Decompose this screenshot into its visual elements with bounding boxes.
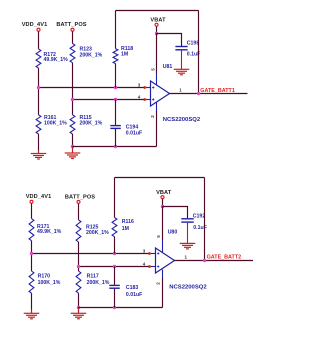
- wire R115 to rail: [72, 134, 74, 147]
- resistor R125: [76, 220, 81, 242]
- svg-text:GATE_BATT2: GATE_BATT2: [207, 254, 242, 260]
- svg-text:NCS2200SQ2: NCS2200SQ2: [169, 285, 207, 291]
- resistor R117: [76, 271, 81, 293]
- svg-text:GATE_BATT1: GATE_BATT1: [200, 88, 235, 94]
- junction col2 line4: [77, 265, 80, 268]
- ground rail wire (2): [79, 307, 163, 309]
- junction C183 line4: [113, 265, 116, 268]
- wire R161 to ground: [38, 134, 40, 150]
- svg-text:0.01uF: 0.01uF: [126, 131, 142, 137]
- resistor R118: [113, 49, 118, 64]
- ground under R161: [31, 150, 47, 159]
- junction R118 line1: [114, 86, 117, 89]
- junction VBAT (2): [161, 205, 164, 208]
- wire BATT_POS down to R123: [72, 31, 74, 43]
- wire box right: [198, 11, 200, 94]
- resistor R172: [36, 49, 41, 68]
- junction R116 line3: [113, 252, 116, 255]
- svg-text:VDD_4V1: VDD_4V1: [22, 22, 48, 28]
- wire line3 node to pin3: [32, 253, 151, 255]
- wire VBAT to C192: [163, 207, 188, 219]
- svg-text:C198: C198: [187, 40, 200, 46]
- ground under C198: [174, 69, 190, 75]
- wire C194 column upper: [115, 100, 117, 126]
- junction output (2): [203, 259, 206, 262]
- svg-text:1M: 1M: [122, 226, 129, 232]
- wire R171 to R170: [31, 241, 33, 271]
- wire box top: [116, 10, 199, 12]
- wire box right (2): [204, 178, 206, 261]
- wire R116 to line3: [114, 237, 116, 254]
- terminal circle VDD_4V1 (2): [30, 200, 33, 203]
- pin4 arrow (2): [149, 265, 154, 268]
- svg-text:VBAT: VBAT: [150, 17, 166, 23]
- pin2 blue stub (2): [162, 270, 164, 279]
- junction C183 rail: [113, 306, 116, 309]
- pin2 wire to rail: [156, 111, 158, 147]
- capacitor C183: [109, 285, 120, 288]
- svg-text:49.9K_1%: 49.9K_1%: [37, 229, 62, 235]
- svg-text:R170: R170: [38, 274, 51, 280]
- junction col1 line3: [30, 252, 33, 255]
- pin2 blue stub: [156, 102, 158, 111]
- svg-text:VDD_4V1: VDD_4V1: [26, 194, 52, 200]
- output wire pin1: [170, 93, 248, 95]
- wire pin5 (2): [162, 207, 164, 241]
- ground under R170: [24, 310, 40, 319]
- pin4 blue stub (2): [151, 266, 155, 268]
- wire R125 to R117: [78, 242, 80, 271]
- svg-text:U81: U81: [163, 64, 173, 70]
- wire box top (2): [115, 177, 205, 179]
- terminal circle VBAT (2): [161, 196, 164, 199]
- capacitor C192: [181, 219, 193, 222]
- resistor R171: [29, 219, 34, 241]
- svg-text:VBAT: VBAT: [156, 190, 172, 196]
- ground under R115: [65, 147, 81, 159]
- wire R123 to R115: [72, 63, 74, 115]
- junction R115 rail: [71, 145, 74, 148]
- wire VBAT down (2): [162, 199, 164, 207]
- svg-text:R117: R117: [87, 274, 99, 280]
- svg-text:200K_1%: 200K_1%: [87, 280, 110, 286]
- plus mark pin4 (2): [157, 265, 159, 267]
- svg-text:100K_1%: 100K_1%: [44, 121, 67, 127]
- wire box left upper (2): [114, 178, 116, 218]
- terminal circle VDD_4V1: [37, 28, 40, 31]
- pin3 arrow (2): [149, 252, 154, 255]
- terminal circle BATT_POS: [71, 28, 74, 31]
- pin3 arrow: [144, 86, 149, 89]
- svg-text:200K_1%: 200K_1%: [86, 230, 109, 236]
- resistor R170: [29, 271, 34, 293]
- svg-text:R116: R116: [122, 219, 134, 225]
- svg-text:200K_1%: 200K_1%: [80, 53, 103, 59]
- plus mark pin3: [152, 86, 154, 88]
- pin3 blue stub (2): [151, 253, 155, 255]
- wire C183 column upper: [114, 267, 116, 285]
- op-amp U81 triangle: [151, 81, 170, 106]
- wire VBAT down: [156, 27, 158, 34]
- svg-text:C192: C192: [193, 214, 206, 220]
- wire VDD_4V1 down to R172: [38, 31, 40, 49]
- wire VBAT to C198: [157, 34, 182, 47]
- wire line1 node to pin3: [39, 87, 146, 89]
- ground under C192: [180, 243, 196, 249]
- junction R117 rail: [77, 306, 80, 309]
- junction output: [197, 92, 200, 95]
- resistor R123: [70, 44, 75, 63]
- svg-text:BATT_POS: BATT_POS: [56, 22, 86, 28]
- wire line2 node to pin4: [73, 99, 146, 101]
- svg-text:C194: C194: [126, 124, 139, 130]
- plus mark pin4: [152, 98, 154, 100]
- resistor R115: [70, 115, 75, 134]
- pin4 arrow: [144, 98, 149, 101]
- plus mark pin3 (2): [157, 252, 159, 254]
- wire VDD_4V1 down to R171: [31, 204, 33, 219]
- pin2 wire to rail (2): [162, 278, 164, 308]
- capacitor C194: [110, 126, 121, 129]
- svg-text:0.01uF: 0.01uF: [126, 292, 142, 298]
- wire R117 to rail: [78, 293, 80, 307]
- junction C194 rail: [114, 145, 117, 148]
- svg-text:49.9K_1%: 49.9K_1%: [44, 57, 69, 63]
- terminal circle VBAT: [155, 23, 158, 26]
- wire C192 to ground: [187, 223, 189, 244]
- svg-text:U80: U80: [168, 229, 178, 235]
- resistor R116: [112, 218, 117, 237]
- junction VBAT: [155, 32, 158, 35]
- junction col2 line2: [71, 98, 74, 101]
- svg-text:100K_1%: 100K_1%: [38, 280, 61, 286]
- wire C183 column lower: [114, 289, 116, 308]
- ground rail wire: [73, 146, 157, 148]
- svg-text:C183: C183: [126, 285, 139, 291]
- capacitor C198: [175, 47, 187, 50]
- junction C194 line2: [114, 98, 117, 101]
- wire R118 to line1: [115, 64, 117, 88]
- wire line4 node to pin4: [79, 266, 151, 268]
- pin4 blue stub: [147, 99, 151, 101]
- svg-text:200K_1%: 200K_1%: [80, 121, 103, 127]
- wire R170 to ground: [31, 293, 33, 309]
- svg-text:BATT_POS: BATT_POS: [65, 194, 95, 200]
- wire box left upper: [115, 11, 117, 49]
- wire C194 column lower: [115, 129, 117, 147]
- pin3 blue stub: [147, 87, 151, 89]
- pin5 blue stub: [156, 73, 158, 85]
- svg-text:1M: 1M: [121, 51, 128, 57]
- svg-text:NCS2200SQ2: NCS2200SQ2: [163, 117, 201, 123]
- wire pin5: [156, 34, 158, 74]
- output wire pin1 (2): [175, 260, 254, 262]
- resistor R161: [36, 115, 41, 134]
- ground under R117: [71, 308, 87, 319]
- pin5 blue stub (2): [162, 240, 164, 253]
- op-amp U80 triangle: [156, 248, 175, 273]
- wire R172 to R161: [38, 68, 40, 115]
- wire C198 to ground: [181, 50, 183, 69]
- wire BATT_POS down to R125: [78, 204, 80, 220]
- terminal circle BATT_POS (2): [77, 200, 80, 203]
- junction col1 line1: [37, 86, 40, 89]
